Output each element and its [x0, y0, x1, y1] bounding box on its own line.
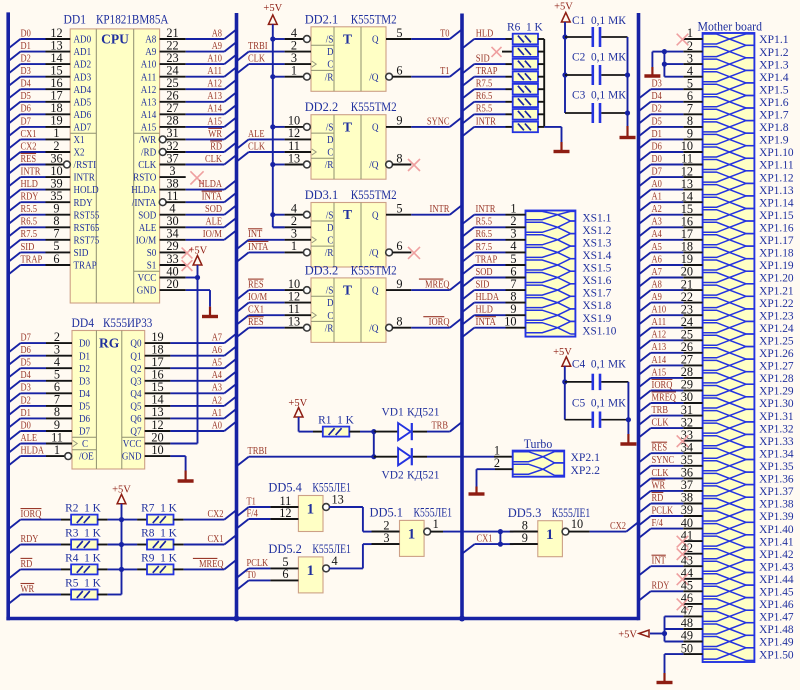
- svg-text:XP1.6: XP1.6: [759, 97, 789, 109]
- connector XP1 pin 44 contact: [703, 573, 755, 586]
- svg-text:D2: D2: [652, 104, 662, 115]
- node XP1.36 label: [759, 474, 794, 486]
- svg-text:D4: D4: [21, 370, 32, 381]
- svg-text:R7.5: R7.5: [21, 229, 38, 240]
- wire net INTR to XS1 pin 1: [462, 202, 526, 225]
- svg-text:9: 9: [396, 277, 402, 291]
- svg-text:+5V: +5V: [553, 347, 572, 358]
- svg-text:/INTA: /INTA: [132, 197, 157, 209]
- svg-text:TRAP: TRAP: [476, 254, 498, 265]
- wire net A5 to XP1 pin 18: [639, 240, 703, 262]
- svg-text:XS1.1: XS1.1: [582, 212, 611, 224]
- svg-text:D7: D7: [21, 116, 31, 127]
- wire net MREQ from R9 to bus: [174, 558, 237, 569]
- node XP1.18 label: [759, 248, 794, 260]
- svg-text:XP1.2: XP1.2: [759, 47, 789, 59]
- no-connect X on R6 element 2: [492, 47, 513, 57]
- connector XP1 pin 31 contact: [703, 409, 755, 422]
- node XP1.4 label: [759, 72, 789, 84]
- svg-text:SYNC: SYNC: [652, 455, 675, 466]
- svg-text:+5V: +5V: [263, 3, 282, 14]
- svg-text:13: 13: [288, 151, 300, 165]
- value label: DD1 reference: [64, 13, 87, 27]
- node XP1.3 label: [759, 59, 789, 71]
- svg-text:/S: /S: [326, 34, 334, 46]
- chip function label RG: [99, 335, 120, 350]
- wire DD4 pin 12 (Q7) to bus, net A0: [130, 418, 236, 438]
- IC body: D flip-flop DD2.1 К555ТМ2: [311, 27, 386, 92]
- svg-text:T: T: [343, 32, 352, 47]
- wire to DD2.1 pin 1 (/R) net +5: [270, 64, 310, 81]
- svg-text:IORQ: IORQ: [429, 317, 450, 328]
- IC body: register DD4 К555ИР33: [72, 331, 145, 470]
- wire DD4 pin 20 VCC to +5V rail: [123, 430, 198, 450]
- svg-text:Q5: Q5: [130, 401, 141, 413]
- svg-text:1: 1: [307, 502, 315, 518]
- svg-text:XP1.30: XP1.30: [759, 398, 794, 410]
- capacitor C4 0,1 МК: [565, 359, 629, 391]
- svg-text:К555ТМ2: К555ТМ2: [351, 263, 397, 277]
- output bubble and pin 4 of DD5.2: [323, 554, 338, 572]
- connector XP1 pin 6 contact: [703, 96, 755, 109]
- svg-text:ALE: ALE: [248, 129, 265, 140]
- power +5V symbol above R1: [288, 398, 307, 417]
- wire +5V rail to capacitors C4-C5: [562, 366, 567, 419]
- connector XP1 pin 30 contact: [703, 397, 755, 410]
- wire net F/4 to XP1 pin 40: [639, 516, 703, 538]
- svg-text:R5.5: R5.5: [476, 217, 493, 228]
- svg-text:10: 10: [571, 517, 583, 531]
- svg-text:R7.5: R7.5: [476, 79, 493, 90]
- svg-text:AD6: AD6: [74, 109, 92, 121]
- svg-text:XP1.42: XP1.42: [759, 549, 794, 561]
- svg-text:C: C: [327, 310, 333, 322]
- svg-text:/S: /S: [326, 209, 334, 221]
- svg-text:R8 1 K: R8 1 K: [141, 528, 178, 540]
- svg-text:CLK: CLK: [652, 468, 669, 479]
- node XP1.29 label: [759, 386, 794, 398]
- svg-text:1: 1: [433, 517, 439, 531]
- svg-text:SOD: SOD: [138, 209, 156, 221]
- chip function label CPU: [101, 32, 129, 47]
- svg-text:D7: D7: [652, 167, 662, 178]
- value label: DD5.2 reference: [268, 542, 302, 556]
- svg-text:D4: D4: [21, 79, 32, 90]
- svg-text:A1: A1: [212, 408, 222, 419]
- svg-text:К555ИР33: К555ИР33: [103, 316, 152, 330]
- connector XP1 pin 5 contact: [703, 83, 755, 96]
- value label: DD3.1 reference: [305, 188, 339, 202]
- wire DD1 pin 30 (ALE) to bus, net ALE: [139, 214, 237, 234]
- svg-text:9: 9: [396, 114, 402, 128]
- wire net RDY from left bus to R3: [8, 534, 71, 554]
- no-connect X on XP1 pin 1: [677, 26, 703, 45]
- svg-text:13: 13: [288, 315, 300, 329]
- wire +5V to R1: [299, 417, 323, 432]
- wire DD4 pin 19 (Q0) to bus, net A7: [130, 330, 236, 350]
- wire to DD2.2 pin 10 (/S) net +5: [270, 114, 310, 131]
- connector XP1 pin 40 contact: [703, 522, 755, 535]
- svg-text:D0: D0: [21, 28, 31, 39]
- junction: second bus joins bottom bus: [234, 616, 240, 622]
- svg-text:PCLK: PCLK: [652, 505, 674, 516]
- svg-text:XP1.45: XP1.45: [759, 587, 794, 599]
- resistor R6 element 3: [513, 59, 538, 70]
- svg-text:RDY: RDY: [652, 581, 670, 592]
- svg-text:/Q: /Q: [369, 322, 378, 334]
- wire net IORQ to XP1 pin 29: [639, 378, 703, 400]
- svg-text:CPU: CPU: [101, 32, 129, 47]
- svg-text:A12: A12: [207, 79, 222, 90]
- svg-text:/S: /S: [326, 285, 334, 297]
- svg-text:RES: RES: [248, 317, 264, 328]
- svg-text:Q6: Q6: [130, 413, 142, 425]
- node XS1.8 label: [582, 300, 611, 312]
- svg-text:T1: T1: [247, 496, 256, 507]
- svg-text:R6.5: R6.5: [21, 217, 38, 228]
- wire net A3 to XP1 pin 16: [639, 215, 703, 237]
- svg-text:D3: D3: [79, 375, 90, 387]
- svg-text:Q4: Q4: [130, 388, 142, 400]
- svg-text:D6: D6: [652, 141, 662, 152]
- wire stub XP1 pin 4: [683, 64, 702, 78]
- node XP1.22 label: [759, 298, 794, 310]
- wire net TRAP to DD1 pin 6 (TRAP): [8, 252, 97, 275]
- wire net RES to XP1 pin 34: [639, 440, 703, 462]
- svg-text:5: 5: [396, 202, 402, 216]
- node XP1.37 label: [759, 486, 794, 498]
- svg-text:D: D: [327, 46, 334, 58]
- value label: DD5.1 reference: [370, 506, 404, 520]
- wire net CX1 to DD1 pin 1 (X1): [8, 126, 84, 149]
- svg-text:A12: A12: [141, 84, 157, 96]
- svg-text:Q: Q: [372, 285, 379, 297]
- wire DD1 pin 25 (A12) to bus, net A12: [141, 76, 237, 96]
- resistor R4 1 K: [65, 552, 102, 574]
- svg-text:INTR: INTR: [430, 204, 451, 215]
- svg-text:C1 0,1 МК: C1 0,1 МК: [572, 15, 626, 27]
- svg-text:VD1: VD1: [382, 407, 404, 419]
- node XP1.41 label: [759, 536, 794, 548]
- connector XP1 body (Mother board): [703, 33, 755, 662]
- wire to DD3.1 pin 1 (/R) net INTA~: [237, 239, 311, 262]
- svg-text:ALE: ALE: [139, 222, 157, 234]
- svg-text:XS1.7: XS1.7: [582, 288, 611, 300]
- svg-text:A6: A6: [652, 254, 662, 265]
- resistor R6 element 8: [513, 122, 538, 133]
- svg-text:MREQ: MREQ: [652, 392, 677, 403]
- svg-text:1: 1: [408, 527, 416, 543]
- svg-text:RES: RES: [652, 443, 668, 454]
- svg-text:AD3: AD3: [74, 71, 92, 83]
- node XP1.48 label: [759, 624, 794, 636]
- svg-text:XP1.29: XP1.29: [759, 386, 794, 398]
- wire net INTR to DD1 pin 10 (INTR): [8, 164, 95, 187]
- connector XP1 pin 36 contact: [703, 472, 755, 485]
- svg-text:D: D: [327, 222, 334, 234]
- svg-text:C: C: [327, 234, 333, 246]
- no-connect X on XP1 pin 46: [677, 591, 703, 610]
- wire net INTA to XS1 pin 10: [462, 315, 526, 338]
- node XS1.4 label: [582, 250, 611, 262]
- svg-text:MREQ: MREQ: [425, 280, 450, 291]
- node XP1.27 label: [759, 361, 794, 373]
- connector XP1 pin 18 contact: [703, 246, 755, 259]
- wire DD1 pin 24 (A11) to bus, net A11: [141, 64, 237, 84]
- wire net CLK to XP1 pin 32: [639, 415, 703, 437]
- wire net D0 to DD4 pin 9 (D7): [8, 418, 90, 441]
- node XP1.20 label: [759, 273, 794, 285]
- wire net CX1 from DD5.1 output across bus to DD5.3: [430, 529, 538, 534]
- svg-text:S1: S1: [147, 260, 157, 272]
- svg-text:SYNC: SYNC: [427, 116, 450, 127]
- wire to DD2.2 pin 11 (C) net CLK: [237, 139, 312, 162]
- svg-text:T: T: [343, 207, 352, 222]
- wire DD5.2 output 4 to DD5.1 input 3: [329, 544, 399, 568]
- connector XP1 pin 19 contact: [703, 259, 755, 272]
- svg-text:Turbo: Turbo: [524, 437, 553, 451]
- wire net SYNC to XP1 pin 35: [639, 453, 703, 475]
- node XP1.2 label: [759, 47, 789, 59]
- node XP1.15 label: [759, 210, 794, 222]
- wire net SID to DD1 pin 5 (SID): [8, 239, 88, 262]
- IC body: D flip-flop DD3.2 К555ТМ2: [311, 278, 386, 343]
- wire net D4 to DD1 pin 16 (AD4): [8, 76, 91, 99]
- connector XP1 pin 3 contact: [703, 58, 755, 71]
- svg-text:RDY: RDY: [21, 534, 39, 545]
- svg-text:CLK: CLK: [248, 54, 265, 65]
- svg-text:1: 1: [307, 563, 315, 579]
- wire net RES to DD1 pin 36 (/RSTI): [8, 151, 96, 174]
- wire R6 element 1 to common: [538, 38, 544, 40]
- svg-text:/R: /R: [325, 159, 334, 171]
- resistor R6 element 5: [513, 84, 538, 95]
- value label: DD5.3 type К555ЛЕ1: [552, 506, 591, 520]
- svg-text:3: 3: [383, 531, 389, 545]
- svg-text:XP1.8: XP1.8: [759, 122, 789, 134]
- wire net RD from left bus to R4: [8, 558, 71, 579]
- svg-text:S0: S0: [147, 247, 157, 259]
- svg-text:A15: A15: [652, 367, 667, 378]
- wire R6 element 5 to common: [538, 88, 544, 90]
- node XP1.17 label: [759, 235, 794, 247]
- resistor R6 element 1: [513, 34, 538, 45]
- wire stub XP1 pin 48: [681, 616, 703, 630]
- svg-text:R4 1 K: R4 1 K: [65, 552, 102, 564]
- connector XS1 pin 10 contact: [526, 321, 576, 334]
- connector XP1 pin 50 contact: [703, 648, 755, 661]
- svg-text:R5.5: R5.5: [476, 104, 493, 115]
- connector XS1 pin 8 contact: [526, 296, 576, 309]
- wire net R5.5 to XS1 pin 2: [462, 214, 526, 237]
- wire net D7 to DD4 pin 2 (D0): [8, 330, 90, 353]
- svg-text:GND: GND: [122, 451, 142, 463]
- svg-text:T: T: [343, 283, 352, 298]
- node XP1.19 label: [759, 260, 794, 272]
- value label: DD3.1 type К555ТМ2: [351, 188, 397, 202]
- node XP1.9 label: [759, 135, 789, 147]
- wire to DD3.1 pin 3 (C) net INT~: [237, 227, 312, 250]
- svg-text:R1 1 K: R1 1 K: [318, 415, 355, 427]
- wire net PCLK to XP1 pin 39: [639, 503, 703, 525]
- svg-text:A4: A4: [212, 370, 223, 381]
- connector XP1 pin 25 contact: [703, 334, 755, 347]
- svg-text:XP1.44: XP1.44: [759, 574, 794, 586]
- wire net CX2 to DD1 pin 2 (X2): [8, 139, 84, 162]
- svg-text:INT: INT: [248, 229, 263, 240]
- svg-text:DD3.2: DD3.2: [305, 263, 339, 277]
- node XP1.40 label: [759, 524, 794, 536]
- connector XP1 pin 20 contact: [703, 271, 755, 284]
- wire DD1 pin 37 (CLK) to bus, net CLK: [138, 151, 236, 171]
- svg-text:TRBI: TRBI: [248, 41, 268, 52]
- power +5V symbol above DD1 VCC: [189, 246, 208, 266]
- wire net CLK to XP1 pin 36: [639, 466, 703, 488]
- wire capacitor ground rail C4-C5: [626, 382, 631, 434]
- connector XP1 pin 33 contact: [703, 434, 755, 447]
- svg-text:8: 8: [396, 315, 402, 329]
- node XP1.47 label: [759, 612, 794, 624]
- connector XP1 pin 34 contact: [703, 447, 755, 460]
- wire net A6 to XP1 pin 19: [639, 252, 703, 274]
- svg-text:/S: /S: [326, 122, 334, 134]
- svg-text:WR: WR: [652, 480, 666, 491]
- svg-text:A5: A5: [212, 358, 222, 369]
- wire VD2 cathode across bus to XP2 pin 1: [413, 443, 513, 457]
- connector XS1 pin 1 contact: [526, 211, 576, 221]
- wire net A14 to XP1 pin 27: [639, 353, 703, 375]
- svg-text:XP1.46: XP1.46: [759, 599, 794, 611]
- wire R6 common to ground: [544, 127, 561, 142]
- no-connect X on DD1 pin 29 (S0): [147, 239, 193, 259]
- wire DD2.1 pin 6 to bus, net T1: [386, 64, 462, 81]
- svg-text:D4: D4: [79, 388, 91, 400]
- svg-text:DD4: DD4: [72, 316, 95, 330]
- wire input 2 of DD5.1: [372, 518, 400, 532]
- svg-text:D3: D3: [21, 383, 31, 394]
- svg-text:6: 6: [53, 252, 59, 266]
- value label: R6 1 K: [507, 22, 544, 34]
- capacitor C5 0,1 МК: [565, 398, 629, 428]
- svg-text:VCC: VCC: [123, 438, 142, 450]
- wire R6 element 7 to common: [538, 113, 544, 115]
- svg-text:CLK: CLK: [205, 154, 222, 165]
- connector XP1 pin 22 contact: [703, 296, 755, 309]
- wire DD1 pin 21 (A8) to bus, net A8: [145, 26, 236, 46]
- svg-text:WR: WR: [21, 584, 35, 595]
- svg-text:A11: A11: [207, 66, 222, 77]
- resistor R5 1 K: [65, 578, 102, 600]
- connector XP1 pin 37 contact: [703, 485, 755, 498]
- wire DD4 pin 15 (Q4) to bus, net A3: [130, 380, 236, 400]
- wire net RDY to XP1 pin 45: [639, 579, 703, 601]
- node XP1.1 label: [759, 34, 789, 46]
- svg-text:К555ТМ2: К555ТМ2: [351, 100, 397, 114]
- svg-text:AD2: AD2: [74, 59, 92, 71]
- wire DD3.2 pin 9 to bus, net MREQ: [386, 277, 462, 291]
- node XP1.10 label: [759, 147, 794, 159]
- wire stub XP1 pin 3: [683, 51, 702, 65]
- svg-text:XS1.8: XS1.8: [582, 300, 611, 312]
- wire net HLDA to XS1 pin 8: [462, 289, 526, 312]
- svg-text:XP1.9: XP1.9: [759, 135, 789, 147]
- value label: DD5.4 type К555ЛЕ1: [312, 481, 351, 495]
- svg-text:R2 1 K: R2 1 K: [65, 503, 102, 515]
- wire net D7 to XP1 pin 12: [639, 164, 703, 186]
- wire to DD3.2 pin 12 (D) net IO/M: [237, 289, 312, 312]
- svg-text:XS1.2: XS1.2: [582, 225, 611, 237]
- svg-text:IO/M: IO/M: [248, 292, 268, 303]
- svg-text:XP1.16: XP1.16: [759, 223, 794, 235]
- op-amp/IC body: microprocessor U DD1 (box with pin-name columns): [70, 29, 159, 303]
- wire net R7.5 into R6 element 5: [462, 79, 513, 99]
- svg-text:D0: D0: [652, 154, 662, 165]
- node XP1.50 label: [759, 649, 794, 661]
- wire net D6 to DD1 pin 18 (AD6): [8, 101, 91, 124]
- svg-text:XP1.10: XP1.10: [759, 147, 794, 159]
- svg-text:RD: RD: [210, 141, 222, 152]
- wire DD1 pin 40 VCC to +5V rail: [138, 264, 200, 284]
- svg-text:INTA: INTA: [476, 317, 497, 328]
- wire net A15 to XP1 pin 28: [639, 365, 703, 387]
- svg-text:A9: A9: [652, 292, 662, 303]
- wire net HLDA to DD4 pin 1 (/OE): [8, 443, 94, 466]
- resistor R9 1 K: [141, 552, 178, 574]
- svg-text:RDY: RDY: [74, 197, 93, 209]
- node XP1.11 label: [759, 160, 794, 172]
- node XP1.31 label: [759, 411, 794, 423]
- svg-text:C2 0,1 МК: C2 0,1 МК: [572, 52, 626, 64]
- resistor R3 1 K: [65, 528, 102, 550]
- svg-text:A10: A10: [652, 305, 667, 316]
- svg-text:A14: A14: [207, 104, 222, 115]
- svg-text:D6: D6: [21, 345, 31, 356]
- svg-text:TRAP: TRAP: [476, 66, 498, 77]
- svg-text:D: D: [327, 134, 334, 146]
- svg-text:XP1.27: XP1.27: [759, 361, 794, 373]
- svg-text:D5: D5: [79, 401, 90, 413]
- junction wire between VD1 and VD2 anodes: [371, 432, 376, 460]
- svg-text:R9 1 K: R9 1 K: [141, 552, 178, 564]
- svg-text:D2: D2: [79, 363, 90, 375]
- ground symbol for XP1 pin 50: [657, 673, 673, 683]
- wire DD1 pin 34 (IO/M) to bus, net IO/M: [136, 227, 237, 247]
- svg-text:X2: X2: [74, 147, 85, 159]
- svg-text:D0: D0: [21, 420, 31, 431]
- svg-text:VD2: VD2: [382, 469, 404, 481]
- resistor R6 element 7: [513, 109, 538, 120]
- svg-text:HLD: HLD: [21, 179, 39, 190]
- svg-text:WR: WR: [208, 129, 222, 140]
- connector XP1 pin 17 contact: [703, 234, 755, 247]
- node XS1.3 label: [582, 237, 611, 249]
- connector XP1 pin 7 contact: [703, 108, 755, 121]
- svg-text:A15: A15: [141, 122, 157, 134]
- svg-text:/WR: /WR: [139, 134, 157, 146]
- wire net D3 to DD1 pin 15 (AD3): [8, 64, 91, 87]
- svg-text:Q2: Q2: [130, 363, 141, 375]
- node XP1.5 label: [759, 84, 789, 96]
- resistor R6 element 2: [513, 46, 538, 57]
- svg-text:INTA: INTA: [248, 242, 269, 253]
- ground symbol for R6 common: [554, 142, 570, 152]
- no-connect X on XP1 pin 41: [677, 528, 703, 547]
- connector XS1 pin 9 contact: [526, 309, 576, 322]
- wire: right bus feeding XP1 (vertical): [637, 13, 641, 620]
- output bubble and pin 10 of DD5.3: [562, 517, 583, 535]
- svg-text:INTA: INTA: [202, 192, 223, 203]
- resistor R7 1 K: [141, 503, 178, 525]
